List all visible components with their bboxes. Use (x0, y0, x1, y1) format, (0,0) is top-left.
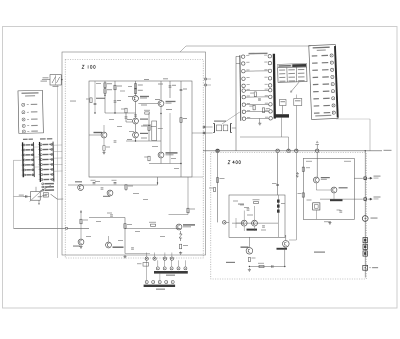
resistor R14 horizontal lower (151, 224, 156, 226)
legend row 2 text (27, 111, 29, 113)
wire stub J3 to Z100 edge at y=152 (53, 150, 62, 152)
wire vertical x=149 in Z100 (148, 113, 150, 141)
capacitor C8 on osc rail (101, 188, 104, 189)
connector P5 pin 9 number (265, 109, 268, 112)
Q10 label (241, 247, 249, 248)
Q13 dark type label (330, 199, 343, 201)
connector P1 pin 2 lead (164, 260, 166, 267)
legend row 1 symbol (22, 103, 25, 106)
connector J2 row 2 second label (31, 149, 33, 150)
Q1 designator label (140, 96, 149, 97)
value label texture mid inner box (109, 119, 114, 120)
diagonal wire from connector P4 to filter (222, 112, 240, 124)
antenna terminal label (369, 267, 371, 269)
connector J3 row 4 label (43, 159, 49, 161)
feedthrough terminal FT1 on Z100 bottom edge (145, 257, 148, 260)
wire stub above feedthrough FT3 (164, 253, 166, 258)
wire Q3 emitter to y=141 (135, 138, 137, 141)
wire stub below P4 field (259, 118, 261, 121)
connector J2 pin 7 left (24, 174, 26, 176)
wire between P4 and P5 pins (245, 89, 268, 91)
connector J3 pin 4 right (51, 158, 53, 160)
label left of switch wire (41, 81, 48, 82)
output label y=199.1 (374, 197, 381, 198)
connector P4 title (249, 53, 268, 55)
value label texture near mixer (152, 146, 158, 147)
wire stub above feedthrough FT1 (146, 253, 148, 258)
wire between P4 and P5 pins (246, 103, 269, 105)
resistor R26 under Q15 (103, 146, 105, 151)
wire x=157.5 from inner box bottom (157, 177, 159, 185)
connector J2 row 3 second label (31, 154, 33, 155)
J1 row 1 pin (330, 54, 333, 57)
connector J3 row 2 second label (49, 149, 52, 150)
wire Q5 emitter down to rail (160, 158, 162, 164)
capacitor C15 on bottom wire (272, 265, 273, 268)
connector P4 pin 6 (242, 89, 245, 92)
push-pull transistor Q9A (241, 220, 247, 226)
J1 row 8 right text (323, 105, 330, 106)
connector J3 row 1 second label (49, 144, 52, 145)
capacitor C7 left column (94, 103, 97, 104)
interconnect table J1 outline (309, 45, 338, 120)
lightning arrestor section 2 (363, 244, 367, 249)
resistor R11 right column (180, 118, 182, 123)
bus terminal TP2 (276, 149, 279, 152)
connector P4 pin 6 number (247, 88, 250, 91)
push-pull transistor Q9B (252, 220, 258, 226)
wire x=181 right side Z100 (180, 81, 182, 177)
wire filter box to feedthrough y=199.1 (354, 198, 363, 200)
voltage chart row 4 text (279, 81, 285, 82)
lightning arrestor section 3 (363, 251, 367, 256)
component column x=278 in driver box (277, 195, 279, 237)
wire stub J2 to J3 at y=147 (34, 146, 40, 148)
oscillator buffer transistor Q6 (107, 190, 113, 196)
transistor Q1 RF amp (133, 96, 139, 102)
crystal label (307, 200, 312, 201)
connector J3 pin 3 left (40, 154, 42, 156)
connector J2 row 1 label (26, 144, 31, 145)
wire stub J3 to Z100 edge at y=145.5 (53, 144, 62, 146)
connector J2 pin 4 left (23, 159, 25, 161)
connector J2 pin 6 outer stub (21, 169, 24, 171)
wire y=266.5 Z400 bottom (249, 266, 284, 268)
output label y=178.2 (374, 176, 381, 177)
connector J2 row 4 label (26, 159, 31, 160)
wire across driver box y=223 (232, 222, 278, 224)
main bus wire y=150.8 (203, 150, 382, 152)
wire from J1 bottom down right side (369, 119, 371, 151)
switch S1 internal divider (55, 75, 57, 85)
value label texture oscillator area (95, 181, 100, 182)
connector J3 row 6 second label (50, 169, 53, 170)
resistor R21 on Z400 entry (216, 178, 218, 183)
connector P5 right rail dark bar (273, 54, 276, 119)
connector J3 pin 8 left (41, 179, 43, 181)
connector J2 pin 3 right (31, 154, 33, 156)
J1 row 7 right text (323, 98, 330, 99)
connector J3 right rail (52, 142, 55, 182)
voltage chart column dividers (286, 68, 288, 83)
connector J3 row 3 label (43, 154, 49, 156)
input terminal into driver box (223, 221, 226, 224)
resistor R7 mid Z100 (145, 112, 149, 114)
connector P5 pin 8 (269, 103, 272, 106)
connector J3 row 7 label (43, 174, 49, 176)
bus terminal TP3 (287, 149, 290, 152)
connector J2 row 7 label (26, 174, 31, 175)
value label texture row top of inner box (96, 83, 101, 84)
wire Q13 down (333, 193, 335, 199)
connector P2 pin 2 (152, 281, 155, 284)
wire module bar down to junction wire (281, 118, 283, 137)
J1 row 9 right text (324, 112, 331, 113)
arrow from voltage chart to circuit (291, 82, 299, 92)
wire Q4 collector up (160, 81, 162, 101)
junction at switch to Z100 edge (61, 79, 62, 80)
feedthrough terminal on Z400 edge y=178.2 (364, 177, 367, 180)
label right of column (281, 203, 285, 204)
legend row 4 symbol (22, 124, 25, 127)
capacitor C5 at 115,141 (114, 141, 117, 142)
Q15 dark label left (94, 132, 103, 133)
wire from Z100 top corner rising (180, 46, 311, 52)
connector P5 pin 1 number (264, 54, 267, 57)
wire Q15 emitter down (103, 138, 105, 145)
wire horizontal y=104 to Q4 (138, 103, 158, 105)
connector J3 pin 2 right (51, 148, 53, 150)
connector P1 pin 4 (177, 267, 180, 270)
first mixer transistor Q5 (158, 152, 164, 158)
extra value labels cluster near Q2 (127, 119, 132, 120)
connector J2 pin 4 right (31, 159, 33, 161)
inductor L1 in driver box (238, 204, 244, 205)
J1 row 6 right text (323, 91, 330, 92)
connector P4 pin 8 (242, 103, 245, 106)
junction osc rail (157, 182, 158, 183)
J1 row 2 left text (312, 62, 318, 63)
resistor R22 on Z400 entry (214, 188, 216, 192)
connector J3 pin 7 left (41, 174, 43, 176)
resistor R17 osc column (80, 219, 82, 224)
label top-left in filter box (306, 161, 312, 162)
label right of potentiometer (42, 195, 47, 196)
connector J3 pin 8 outer stub (38, 179, 41, 181)
Q3 designator label (140, 133, 148, 134)
ground below P4 field (258, 122, 261, 125)
ground under Q10 (248, 268, 251, 271)
wire horizontal y=113 in Z100 (105, 112, 136, 114)
connector J2 pin 4 outer stub (20, 159, 23, 161)
Q5 first mixer label (166, 152, 178, 153)
connector J3 pin 1 outer stub (37, 144, 40, 146)
connector J2 row 5 second label (31, 164, 33, 165)
connector J3 pin 1 right (51, 143, 53, 145)
label smudge mid driver box (247, 215, 253, 216)
value label texture near oscillator transistors (86, 236, 91, 237)
wire vertical x=135.5 top in Z100 (135, 81, 137, 96)
wire crystal down to box bottom (315, 210, 317, 219)
resistor R13 lower (124, 224, 126, 229)
wire from B1 to module bar (282, 106, 284, 115)
bottom connector bar P1 (154, 271, 188, 274)
ground under Q15 chain (102, 151, 105, 154)
connector J3 title (40, 138, 46, 139)
wire bus TP2 down to driver box (277, 153, 279, 196)
connector J2 row 6 label (26, 169, 31, 170)
antenna jack label (371, 218, 378, 219)
connector P2 pin 1 (145, 281, 148, 284)
wire between P4 and P5 pins (246, 110, 269, 112)
wire vertical x=126 mid (125, 113, 127, 122)
connector P1 pin 5 (184, 267, 187, 270)
connector J2 right rail (33, 142, 36, 177)
Q16 label above (75, 181, 82, 182)
wire x=290 down to bus (288, 137, 290, 151)
connector P1 pin 3 (170, 267, 173, 270)
wire between P4 and P5 pins (245, 96, 268, 98)
J1 row 7 pin (332, 97, 335, 100)
J1 row 1 left text (312, 55, 318, 56)
capacitor C13 right of pair (262, 226, 265, 227)
legend row 2 symbol (22, 111, 25, 114)
resistor R24 under Q10 (248, 258, 250, 262)
connector P5 pin 6 number (265, 88, 268, 91)
connector P5 pin 7 (269, 95, 272, 98)
connector P2 caption (156, 289, 165, 290)
resistor R20 inside P4-P5 field (262, 108, 264, 113)
connector J3 pin 3 outer stub (37, 154, 40, 156)
output filter box outline (303, 158, 354, 219)
connector P4 pin 10 number (247, 116, 250, 119)
wire y=217.5 lower left (89, 217, 125, 219)
resistor R23 in driver box (254, 201, 259, 203)
label above switch input wire (43, 77, 49, 78)
junction square at Z100 edge on loop wire (66, 227, 68, 229)
J1 row 5 pin (331, 82, 334, 85)
connector P4 pin 4 (242, 77, 245, 80)
AGC line label (143, 125, 151, 126)
interconnect table J1 right dark rail (334, 46, 339, 118)
Z100 outer solid box (62, 52, 206, 255)
label near left column (70, 101, 76, 102)
voltage chart row 2 text (279, 73, 285, 74)
output arrow y=178.2 (368, 177, 373, 179)
wire x=126 osc down (125, 185, 127, 191)
connector J2 row 4 second label (31, 159, 33, 160)
wire FT1 down to connector P2 pin 1 (146, 260, 148, 280)
voltage chart row lines (278, 66, 307, 69)
connector J3 row 5 second label (49, 164, 52, 165)
connector J3 pin 5 left (41, 164, 43, 166)
resistor R2 in Z100 (104, 89, 106, 94)
voltage chart row 3 text (279, 77, 285, 78)
resistor R6 mid Z100 (125, 108, 127, 113)
connector J3 pin 5 outer stub (37, 164, 40, 166)
switch S1 box (50, 75, 61, 85)
wire x=236 vertical to bus (235, 56, 237, 150)
transistor Q2 second stage (133, 118, 139, 124)
wire vertical x=115 in Z100 (114, 81, 116, 113)
Q12 label (321, 177, 330, 178)
J1 row 9 left text (314, 112, 320, 113)
connector J3 pin 6 right (51, 168, 53, 170)
phasing label in Z100 (96, 98, 105, 99)
second mixer transistor Q7 (176, 224, 182, 230)
capacitor C18 in filter box (339, 211, 342, 212)
connector J3 row 6 label (43, 169, 49, 171)
wire vertical x=105 in Z100 (104, 81, 106, 113)
connector J3 pin 7 outer stub (38, 174, 41, 176)
junction x=95 y=113 (94, 112, 95, 113)
legend row 1 text (27, 104, 29, 106)
output arrow y=199.1 (368, 198, 373, 200)
junction dot right wire top (365, 150, 366, 151)
bus end terminal label (384, 150, 392, 151)
wire filter output to P4 drop (232, 127, 236, 129)
bottom connector bar P2 (144, 285, 176, 287)
wire y=253.5 bottom of Z100 (125, 253, 150, 255)
wire x=188 lower right (187, 177, 189, 215)
extra value labels cluster near Q3 (141, 138, 147, 139)
connector P1 pin 1 (156, 267, 159, 270)
resistor R19 inside P4-P5 field (253, 105, 255, 110)
connector J3 pin 7 right (51, 173, 53, 175)
transistor Q3 third stage (133, 132, 139, 138)
wire Q4 emitter down (160, 106, 162, 151)
connector P4 pin 8 number (247, 102, 250, 105)
cluster label left (38, 196, 43, 197)
connector J3 pin 4 outer stub (37, 159, 40, 161)
small component left of P1 leads (143, 263, 149, 267)
connector J2 pin 3 outer stub (20, 154, 23, 156)
wire Q9A collector up to top components (243, 211, 245, 221)
junction square filter input upper (203, 126, 205, 128)
J1 row 3 left text (312, 70, 318, 71)
connector P5 pin 1 (268, 54, 271, 57)
wire across filter box y=199 (320, 198, 354, 200)
J1 row 4 right text (322, 76, 329, 77)
ground stub above bus at x=317 (315, 141, 319, 149)
voltage chart table (278, 64, 307, 83)
ground lower center (123, 255, 126, 258)
wire Q1 collector down (135, 101, 137, 118)
Q13 label (339, 187, 348, 188)
Q4 designator label (166, 101, 176, 102)
wire stub above potentiometer (35, 187, 37, 192)
connector P4 pin 1 number (246, 54, 249, 57)
connector P2 pin 3 (158, 281, 161, 284)
wire P4 top pin to x=236 (236, 62, 240, 64)
filter FL1 label (214, 121, 226, 122)
connector J3 row 3 second label (49, 154, 52, 155)
crystal filter FL1 body (217, 125, 222, 131)
connector J2 pin 1 left (23, 144, 25, 146)
connector J2 pin 7 right (32, 174, 34, 176)
Q7 second mixer label (183, 224, 195, 225)
wire into switch S1 from left (42, 79, 50, 81)
cluster below connector J3 row 1 (44, 183, 54, 185)
connector J3 left rail (39, 142, 42, 182)
resistor R5 stack in Z100 (134, 84, 136, 89)
connector P5 pin 5 (268, 84, 271, 87)
connector J2 row 2 label (26, 149, 31, 150)
connector J2 pin 5 right (32, 164, 34, 166)
Q2 designator label (140, 119, 148, 120)
connector P1 pin 1 lead (157, 260, 159, 267)
J1 bottom caption (315, 115, 331, 117)
connector P5 pin 5 number (265, 83, 268, 86)
interconnect table J1 title (313, 47, 330, 49)
legend box FREQUENCY RANGE (18, 90, 43, 133)
connector J3 row 4 second label (49, 159, 52, 160)
connector J3 row 2 label (43, 149, 49, 151)
tall resistor R9 right of Q3 (152, 121, 157, 141)
connector P4 pin 9 (242, 110, 245, 113)
connector P4 pin 4 number (246, 76, 249, 79)
wire filter box to feedthrough y=178.2 (354, 177, 363, 179)
connector J2 pin 3 left (23, 154, 25, 156)
voltage chart title band (278, 64, 307, 68)
connector P5 pin 2 (268, 61, 271, 64)
right vertical wire x=365.2 (364, 151, 366, 278)
ground below filter box (328, 222, 331, 225)
long supply rail wire y=177 across sheet (89, 176, 203, 178)
capacitor C16 on osc rail (93, 183, 96, 184)
legend row 4 text (27, 125, 29, 127)
capacitor C6 right column (180, 89, 183, 90)
wire into filter upper (204, 126, 213, 128)
connector P5 pin 10 number (265, 116, 268, 119)
connector J2 pin 5 outer stub (20, 164, 23, 166)
connector J3 pin 5 right (51, 163, 53, 165)
wire horizontal y=185 oscillator rail (68, 184, 158, 186)
cluster small box below J3 (43, 193, 48, 198)
connector J3 pin 3 right (51, 153, 53, 155)
potentiometer R-var box (31, 192, 41, 201)
connector J3 pin 8 right (51, 178, 53, 180)
J1 row 2 pin (330, 61, 333, 64)
wire driver box to Q10 (248, 237, 250, 247)
Q11 label (277, 248, 288, 250)
connector P4 pin 9 number (247, 109, 250, 112)
connector J2 pin 6 right (32, 169, 34, 171)
wire horizontal y=122 mid (126, 121, 133, 123)
feedthrough terminal FT3 on Z100 bottom edge (163, 257, 166, 260)
crystal component in filter box (313, 203, 320, 210)
junction square on bus below filter (217, 150, 219, 152)
wire stub above feedthrough FT4 (171, 253, 173, 258)
Z100 inner amplifier box (89, 81, 192, 177)
resistor R12 osc (125, 185, 127, 190)
connector J2 title (23, 139, 28, 140)
J1 row 8 left text (314, 105, 320, 106)
transistor Q4 AGC amp (158, 101, 164, 107)
J1 row 6 left text (313, 91, 319, 92)
connector P5 pin 8 number (265, 102, 268, 105)
wire bus TP4 down (295, 153, 297, 241)
filter transistor Q13 (331, 187, 337, 193)
wire left of potentiometer with capacitor C-left (23, 196, 31, 198)
J1 row 3 pin (331, 68, 334, 71)
Z400 shield dashed box (211, 153, 366, 280)
junction right column (180, 163, 181, 164)
connector P5 pin 3 (268, 69, 271, 72)
capacitor C14 on TP2 drop (276, 184, 279, 185)
wire Q11 collector up (285, 235, 287, 241)
long wire down left outside Z100 from switch (57, 85, 59, 258)
